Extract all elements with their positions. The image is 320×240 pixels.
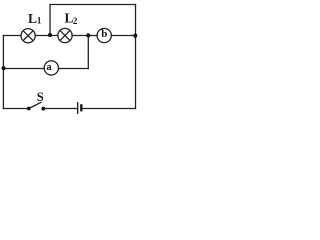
svg-text:1: 1 bbox=[37, 15, 42, 25]
node D junction dot bbox=[2, 66, 6, 70]
node A junction dot bbox=[48, 33, 52, 37]
wire: ammeter row, meter a to corner below node B bbox=[59, 68, 89, 70]
wire: top rail horizontal bbox=[50, 4, 135, 6]
wire: main row, L1 to L2 through node A bbox=[35, 35, 58, 37]
node C junction dot bbox=[133, 34, 137, 38]
wire: ammeter row, node D to meter a bbox=[3, 68, 44, 70]
lamp L2 bbox=[58, 28, 72, 42]
wire: bottom row, switch to battery bbox=[45, 108, 77, 110]
meter b bbox=[97, 28, 111, 43]
svg-text:2: 2 bbox=[73, 16, 78, 26]
node B junction dot bbox=[86, 33, 90, 37]
switch S bbox=[27, 102, 45, 111]
wire: bottom row, battery to right corner bbox=[82, 108, 135, 110]
svg-text:a: a bbox=[46, 62, 52, 73]
wire: left vertical rail bbox=[2, 36, 4, 109]
battery cell bbox=[78, 102, 82, 114]
svg-text:b: b bbox=[101, 28, 107, 40]
wire: vertical from node A up to top rail bbox=[49, 5, 51, 36]
svg-text:L: L bbox=[28, 11, 37, 26]
wire: main row, L2 to meter b through node B bbox=[72, 35, 97, 37]
wire: bottom row, left corner to switch bbox=[3, 108, 27, 110]
wire: vertical from node B down to ammeter row bbox=[87, 36, 89, 69]
wire: main row, left edge to lamp L1 bbox=[3, 35, 21, 37]
lamp L1 bbox=[21, 29, 35, 43]
wire: main row, meter b to node C bbox=[111, 35, 135, 37]
svg-text:S: S bbox=[37, 90, 44, 104]
meter a bbox=[44, 61, 58, 75]
wire: right vertical rail bbox=[135, 5, 137, 109]
